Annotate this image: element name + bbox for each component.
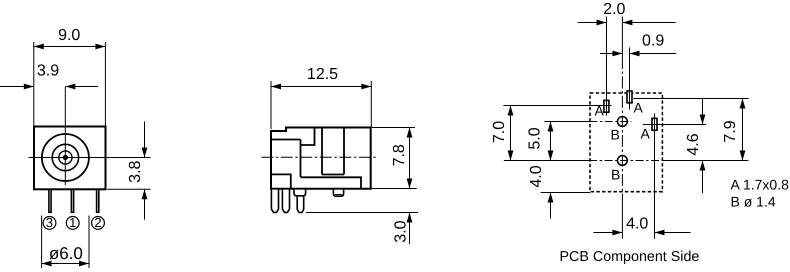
dimension 5.0	[527, 122, 554, 161]
pad A3	[652, 118, 657, 130]
row line A1	[503, 105, 611, 107]
pin 3 lead	[49, 189, 51, 212]
svg-text:2: 2	[94, 215, 101, 230]
row line A2	[634, 98, 749, 100]
pad A1	[604, 100, 609, 112]
dimension 2.0	[578, 1, 676, 26]
svg-text:7.8: 7.8	[391, 144, 408, 166]
row line B2	[504, 160, 749, 162]
svg-text:PCB Component Side: PCB Component Side	[560, 249, 700, 265]
svg-text:ø6.0: ø6.0	[49, 244, 83, 263]
center pin dot	[63, 155, 68, 160]
step notch line	[301, 128, 315, 146]
hole B1	[618, 117, 628, 127]
svg-text:4.0: 4.0	[626, 215, 648, 232]
center pin lead	[297, 196, 304, 213]
pin number 2	[92, 215, 105, 230]
svg-text:A: A	[641, 126, 651, 142]
svg-text:4.0: 4.0	[528, 165, 545, 187]
caption PCB Component Side	[560, 249, 700, 265]
column centerline B	[621, 17, 623, 239]
pin 2 lead	[97, 189, 99, 212]
pin tip extension line	[306, 212, 418, 214]
label B hole2	[611, 167, 620, 183]
svg-text:7.9: 7.9	[722, 120, 739, 142]
svg-text:3.9: 3.9	[37, 63, 59, 80]
dimension 4.6	[685, 99, 705, 194]
svg-text:4.6: 4.6	[685, 133, 702, 155]
dimension 7.9	[722, 99, 745, 161]
legend B size	[731, 194, 776, 210]
dimension ø6.0	[42, 216, 89, 269]
pin number 3	[43, 215, 56, 230]
pin number 1	[66, 215, 79, 230]
base step line	[301, 177, 362, 189]
svg-text:9.0: 9.0	[58, 27, 80, 44]
column line A1	[606, 17, 608, 116]
svg-text:3: 3	[46, 215, 53, 230]
center pin collar	[294, 189, 306, 196]
svg-text:1: 1	[69, 215, 76, 230]
svg-text:7.0: 7.0	[491, 121, 508, 143]
svg-text:A: A	[595, 103, 605, 119]
solder leg 1	[271, 189, 278, 213]
dimension 12.5	[271, 66, 371, 129]
svg-text:3.0: 3.0	[392, 220, 409, 242]
component outline dashed rect	[590, 93, 662, 192]
dimension 7.0	[491, 106, 513, 161]
dimension 3.0	[392, 213, 412, 245]
row line A3	[643, 124, 706, 126]
pad A2	[627, 91, 632, 103]
svg-text:5.0: 5.0	[527, 127, 544, 149]
barrel bottom line	[322, 174, 344, 176]
dimension 3.8	[107, 122, 151, 220]
barrel right edge	[343, 128, 345, 175]
body outline	[34, 127, 106, 190]
dimension 3.9	[0, 63, 98, 90]
svg-text:A: A	[634, 100, 644, 116]
dimension 9.0	[34, 27, 106, 127]
barrel left edge	[321, 128, 323, 175]
side view centerline	[261, 156, 377, 158]
barrel outer circle ø6.0	[42, 134, 89, 181]
dimension 4.0 left	[528, 165, 554, 218]
pin 1 lead	[71, 189, 73, 212]
dimension 4.0 bottom	[594, 215, 691, 235]
flange top line	[271, 139, 301, 141]
svg-text:A 1.7x0.8: A 1.7x0.8	[731, 176, 790, 192]
svg-text:B: B	[611, 167, 620, 183]
label A pad2	[634, 100, 644, 116]
row line B1	[544, 121, 631, 123]
dimension 7.8	[391, 128, 413, 189]
flange right edge	[300, 140, 302, 178]
top edge extension line	[372, 127, 416, 129]
dimension 0.9	[600, 33, 676, 57]
svg-text:12.5: 12.5	[307, 66, 338, 83]
column line A2	[629, 48, 631, 110]
label A pad1	[595, 103, 605, 119]
barrel inner circle	[59, 151, 72, 164]
mounting boss	[333, 189, 343, 196]
barrel middle circle	[52, 144, 78, 170]
horizontal centerline	[29, 157, 151, 159]
svg-text:B ø 1.4: B ø 1.4	[731, 194, 776, 210]
vertical centerline	[64, 87, 66, 185]
side body outline	[271, 128, 371, 189]
solder leg 2	[282, 189, 289, 213]
flange inner bottom line	[271, 174, 291, 188]
legend A size	[731, 176, 790, 192]
row line bottom	[541, 192, 590, 194]
hole B2	[618, 156, 628, 166]
column line A3	[654, 114, 656, 239]
svg-text:0.9: 0.9	[642, 33, 664, 50]
body bottom extension line	[371, 188, 417, 190]
label B hole1	[611, 127, 620, 143]
svg-text:2.0: 2.0	[603, 1, 625, 18]
svg-text:B: B	[611, 127, 620, 143]
svg-text:3.8: 3.8	[127, 160, 144, 182]
label A pad3	[641, 126, 651, 142]
